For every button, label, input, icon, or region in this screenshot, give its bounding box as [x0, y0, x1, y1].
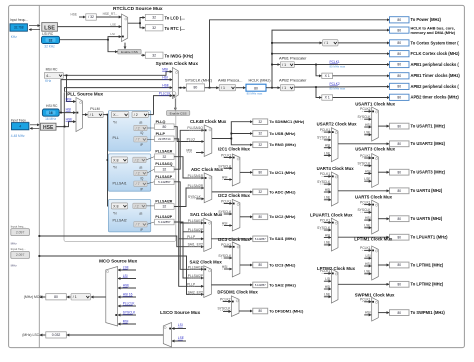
- svg-text:/ 2: / 2: [135, 204, 139, 208]
- svg-text:5.142857: 5.142857: [158, 220, 171, 224]
- svg-text:PLLSAI1P: PLLSAI1P: [188, 219, 204, 223]
- svg-text:5.142857: 5.142857: [255, 283, 266, 287]
- wire: [338, 143, 389, 145]
- junction: [60, 112, 62, 114]
- wire: [324, 288, 331, 290]
- svg-text:80: 80: [397, 85, 401, 89]
- wire: [364, 265, 371, 267]
- svg-text:MSI: MSI: [162, 68, 168, 72]
- svg-text:LSI: LSI: [110, 32, 115, 36]
- input label PCLK1: [221, 200, 232, 204]
- svg-text:HSI: HSI: [365, 311, 371, 315]
- svg-text:PCLK1: PCLK1: [360, 246, 371, 250]
- svg-text:32: 32: [49, 38, 53, 42]
- input label PCLK1: [320, 172, 331, 176]
- svg-text:80: 80: [258, 171, 262, 175]
- wire: [224, 179, 232, 181]
- input label SYSCLK: [188, 195, 202, 199]
- input label PCLK2: [220, 298, 231, 302]
- junction: [271, 87, 273, 89]
- disabled box SAI1_EXT frequency: [11, 229, 30, 236]
- input label LSI: [365, 254, 370, 258]
- svg-text:PLLSAI1R: PLLSAI1R: [155, 150, 172, 154]
- wire: [324, 131, 331, 133]
- wire: [196, 152, 204, 154]
- svg-text:LSE: LSE: [324, 293, 331, 297]
- svg-text:80: 80: [397, 41, 401, 45]
- wire: [378, 218, 389, 220]
- svg-text:PCLK2: PCLK2: [220, 298, 231, 302]
- svg-text:LSI: LSI: [123, 274, 128, 278]
- wire: [324, 155, 331, 157]
- input label PLLSAI1Q: [187, 126, 203, 130]
- dropdown APB1 prescaler: [280, 62, 294, 68]
- net label 4-48 MHz: [11, 134, 25, 138]
- wire: [324, 175, 331, 177]
- svg-text:PLLP: PLLP: [156, 132, 166, 136]
- input label SAI1_EXT: [188, 243, 203, 247]
- svg-text:LSE: LSE: [364, 177, 371, 181]
- svg-text:PLLM: PLLM: [90, 107, 99, 111]
- svg-text:To UART4 (MHz): To UART4 (MHz): [411, 188, 443, 193]
- value box multiplier APB1 timers: [322, 73, 333, 78]
- dropdown Cortex prescaler: [323, 40, 339, 46]
- svg-text:USART3 Clock Mux: USART3 Clock Mux: [355, 147, 395, 152]
- bidirectional arrows LSE: [29, 26, 40, 30]
- input label SYSCLK: [357, 115, 371, 119]
- svg-text:HSE: HSE: [66, 118, 74, 122]
- net label MSI: [66, 97, 72, 101]
- wire: [210, 20, 390, 88]
- wire: [272, 30, 390, 88]
- wire: [324, 139, 331, 141]
- svg-text:SAI2_EXT: SAI2_EXT: [188, 290, 203, 294]
- svg-text:KHz: KHz: [11, 35, 17, 39]
- svg-text:/P: /P: [140, 143, 143, 147]
- net label LSE: [123, 265, 129, 269]
- svg-text:80: 80: [397, 311, 401, 315]
- net label 32 KHz: [44, 45, 55, 49]
- svg-text:SYSCLK: SYSCLK: [123, 310, 136, 314]
- junction: [230, 133, 232, 135]
- net label MSI: [162, 68, 168, 72]
- wire: [364, 204, 371, 206]
- svg-text:/ 2: / 2: [134, 113, 138, 117]
- svg-text:To SAI2 (MHz): To SAI2 (MHz): [269, 282, 296, 287]
- mux SAI2: [204, 266, 212, 298]
- svg-text:Input freq...: Input freq...: [11, 247, 26, 251]
- svg-text:To I2C2 (MHz): To I2C2 (MHz): [269, 214, 296, 219]
- value box PLLSAI2R value: [155, 204, 175, 210]
- wire: [324, 191, 331, 193]
- svg-text:PLLQ: PLLQ: [156, 120, 166, 124]
- PLL group frame: [64, 92, 176, 242]
- svg-text:MSI: MSI: [123, 319, 129, 323]
- wire: [178, 87, 186, 89]
- value box To LCD value: [145, 14, 163, 20]
- svg-text:PCLK1: PCLK1: [221, 200, 232, 204]
- svg-text:/ 1: / 1: [324, 41, 328, 45]
- svg-text:HSI: HSI: [365, 262, 371, 266]
- wire: [338, 190, 389, 192]
- svg-text:To Power (MHz): To Power (MHz): [411, 17, 442, 22]
- wire: [124, 43, 126, 49]
- svg-text:MSI: MSI: [66, 97, 72, 101]
- svg-text:APB2 peripheral clocks (: APB2 peripheral clocks (: [411, 84, 460, 89]
- value box SYSCLK value: [186, 84, 204, 91]
- svg-text:HSI: HSI: [222, 222, 228, 226]
- bidirectional arrows HSE: [30, 125, 39, 129]
- svg-text:32: 32: [162, 205, 166, 209]
- wire: [147, 127, 154, 129]
- svg-text:SYSCLK: SYSCLK: [188, 195, 202, 199]
- mux USART2 Clock Mux: [331, 128, 338, 162]
- svg-text:To LCD (...: To LCD (...: [165, 16, 185, 21]
- source box HSI RC 16: [42, 109, 59, 116]
- wire: [146, 205, 154, 207]
- input label LSE: [324, 196, 331, 200]
- value box HSE input frequency: [12, 123, 29, 130]
- svg-text:/ 7: / 7: [136, 182, 140, 186]
- svg-text:80: 80: [397, 52, 401, 56]
- mux MCO source: [106, 267, 118, 327]
- svg-text:80: 80: [397, 74, 401, 78]
- svg-text:PLLSAI1R: PLLSAI1R: [188, 174, 204, 178]
- svg-text:APB2 timer clocks (MHz): APB2 timer clocks (MHz): [411, 95, 460, 100]
- wire: [148, 114, 153, 116]
- svg-text:To USART2 (MHz): To USART2 (MHz): [411, 141, 446, 146]
- wire: [56, 122, 75, 127]
- svg-text:PLLCLK: PLLCLK: [159, 92, 172, 96]
- output box To UART5: [390, 216, 410, 222]
- input label SYSCLK: [218, 164, 232, 168]
- wire: [39, 236, 203, 247]
- svg-text:LSI RC: LSI RC: [42, 32, 53, 36]
- wire: [272, 42, 322, 44]
- dropdown PLLSAI2 *N multiplier: [111, 203, 127, 209]
- mux LPTIM2 Clock Mux: [331, 269, 338, 303]
- wire: [154, 96, 173, 115]
- svg-text:PCLK1: PCLK1: [360, 200, 371, 204]
- net label PLLCLK: [159, 92, 172, 96]
- wire: [333, 75, 390, 77]
- value box multiplier APB2 timers: [322, 95, 333, 100]
- mux LSCO source: [163, 323, 171, 348]
- output box To DFSDM1: [253, 308, 268, 314]
- wire: [205, 87, 219, 89]
- svg-text:2.097: 2.097: [16, 230, 25, 234]
- svg-text:HSI: HSI: [325, 188, 331, 192]
- output box To UART4: [390, 188, 410, 194]
- input label HSI: [365, 123, 371, 127]
- wire: [118, 278, 136, 280]
- svg-text:To I2C3 (MHz): To I2C3 (MHz): [269, 262, 296, 267]
- svg-text:/ 1: / 1: [282, 86, 286, 90]
- svg-text:PLLSAI1: PLLSAI1: [113, 181, 127, 185]
- svg-text:22.85714: 22.85714: [158, 137, 171, 141]
- svg-text:PCLK1: PCLK1: [360, 154, 371, 158]
- input label HSI: [222, 265, 228, 269]
- junction: [271, 42, 273, 44]
- wire: [224, 257, 232, 259]
- net label KHz: [45, 79, 51, 83]
- wire: [39, 256, 203, 294]
- PLL block PLLSAI2: [108, 200, 150, 232]
- svg-text:/ 1: / 1: [282, 63, 286, 67]
- svg-text:UART4 Clock Mux: UART4 Clock Mux: [317, 166, 355, 171]
- wire: [146, 157, 154, 160]
- svg-text:APB1 Prescaler: APB1 Prescaler: [279, 55, 307, 60]
- wire: [224, 213, 232, 215]
- output box APB2 peripherals: [390, 83, 410, 89]
- net label PCLK1: [330, 60, 340, 64]
- input label MSI: [186, 148, 192, 152]
- svg-text:PLLSAI1Q: PLLSAI1Q: [187, 126, 203, 130]
- net label 80 MHz max: [330, 65, 346, 69]
- junction: [38, 235, 40, 237]
- output box FCLK: [390, 51, 410, 57]
- net label 16 MHz: [45, 117, 56, 121]
- input label SYSCLK: [357, 162, 371, 166]
- svg-text:/ 1: / 1: [90, 113, 94, 117]
- junction: [271, 64, 273, 66]
- wire: [364, 219, 371, 221]
- output box To ADC: [253, 189, 268, 195]
- svg-text:HSI RC: HSI RC: [46, 104, 58, 108]
- wire: [324, 296, 331, 298]
- wire: [294, 86, 389, 89]
- svg-text:MHz: MHz: [11, 241, 18, 245]
- wire: [147, 182, 154, 184]
- svg-text:MSI: MSI: [186, 148, 192, 152]
- svg-text:80: 80: [397, 217, 401, 221]
- output box HCLK to AHB: [390, 27, 410, 33]
- wire: [231, 139, 252, 145]
- svg-text:LSE: LSE: [178, 336, 184, 340]
- wire: [179, 239, 204, 286]
- svg-text:To Cortex System timer (: To Cortex System timer (: [411, 40, 460, 45]
- value box LSCO value: [46, 332, 67, 338]
- value box To IWDG value: [145, 52, 163, 58]
- svg-text:HSI: HSI: [222, 176, 228, 180]
- svg-text:PLLSAI1Q: PLLSAI1Q: [155, 162, 172, 166]
- svg-text:0.032: 0.032: [52, 333, 61, 337]
- wire: [118, 305, 136, 307]
- svg-text:PCLK1: PCLK1: [221, 243, 232, 247]
- svg-text:To RTC (...: To RTC (...: [165, 26, 185, 31]
- junction: [38, 255, 40, 257]
- wire: [174, 222, 203, 232]
- svg-text:To LPUART1 (MHz): To LPUART1 (MHz): [411, 235, 449, 240]
- svg-text:DFSDM1 Clock Mux: DFSDM1 Clock Mux: [217, 290, 258, 295]
- svg-text:SAI2 Clock Mux: SAI2 Clock Mux: [190, 259, 223, 264]
- svg-text:SYSCLK: SYSCLK: [317, 136, 331, 140]
- output box To LPUART1: [390, 234, 410, 240]
- net label HSE: [123, 283, 130, 287]
- mux CLK48: [204, 125, 212, 156]
- svg-text:/P: /P: [140, 188, 143, 192]
- svg-text:RTC/LCD Source Mux: RTC/LCD Source Mux: [113, 6, 163, 12]
- wire: [58, 26, 122, 28]
- input label PLLQ: [187, 137, 196, 141]
- wire: [211, 238, 252, 240]
- svg-text:SYSCLK: SYSCLK: [357, 162, 371, 166]
- dropdown AHB prescaler: [219, 85, 236, 91]
- junction: [315, 64, 317, 66]
- wire: [364, 314, 371, 316]
- wire: [239, 310, 252, 312]
- wire: [118, 323, 136, 325]
- wire: [212, 122, 253, 139]
- value box HCLK: [246, 84, 266, 91]
- dropdown PLL *N multiplier: [111, 112, 129, 118]
- net label PLLCLK: [123, 301, 136, 305]
- svg-text:80: 80: [397, 170, 401, 174]
- svg-text:32: 32: [152, 16, 156, 20]
- input label HSI: [325, 285, 331, 289]
- input label LSE: [364, 224, 371, 228]
- svg-text:PCLK1: PCLK1: [360, 298, 371, 302]
- button Enable CSS (HSE): [167, 111, 190, 116]
- wire: [67, 296, 71, 298]
- svg-text:USART2 Clock Mux: USART2 Clock Mux: [317, 121, 357, 126]
- net label PCLK2: [330, 82, 340, 86]
- wire: [174, 99, 176, 111]
- input label PCLK1: [320, 218, 331, 222]
- wire: [364, 257, 371, 259]
- svg-text:80: 80: [194, 86, 198, 90]
- svg-text:80 MHz max: 80 MHz max: [330, 65, 346, 69]
- dropdown PLLSAI1 *N multiplier: [111, 157, 127, 163]
- input label PLLSAI1P: [188, 265, 204, 269]
- svg-text:To RNG (MHz): To RNG (MHz): [269, 142, 296, 147]
- input label PCLK1: [221, 243, 232, 247]
- value box PLLSAI2P value: [155, 219, 175, 225]
- wire: [172, 328, 186, 330]
- svg-text:CLK48 Clock Mux: CLK48 Clock Mux: [190, 119, 227, 124]
- svg-text:LSE: LSE: [110, 22, 116, 26]
- svg-text:To LPTIM2 (MHz): To LPTIM2 (MHz): [411, 282, 444, 287]
- wire: [223, 301, 231, 303]
- svg-text:PLLSAI2R: PLLSAI2R: [188, 184, 204, 188]
- svg-text:Input frequ...: Input frequ...: [11, 119, 29, 123]
- wire: [103, 114, 111, 116]
- svg-text:APB1 peripheral clocks (: APB1 peripheral clocks (: [411, 62, 460, 67]
- junction: [230, 138, 232, 140]
- output box Cortex timer: [390, 40, 410, 46]
- svg-text:4...: 4...: [46, 74, 51, 78]
- svg-text:PLLCLK: PLLCLK: [123, 301, 136, 305]
- wire: [67, 334, 164, 336]
- wire: [147, 222, 154, 224]
- junction: [271, 53, 273, 55]
- svg-text:80: 80: [397, 283, 401, 287]
- input label PLLSAI2P: [188, 228, 204, 232]
- junction: [64, 126, 66, 128]
- svg-text:HSI 16: HSI 16: [123, 292, 133, 296]
- input label PLLSAI1P: [188, 219, 204, 223]
- output box To USART2: [390, 141, 410, 147]
- wire: [183, 232, 204, 278]
- wire: [96, 16, 121, 18]
- svg-text:16: 16: [49, 111, 53, 115]
- output box To Power: [390, 17, 410, 23]
- svg-text:To UART5 (MHz): To UART5 (MHz): [411, 216, 443, 221]
- svg-text:/ 2: / 2: [136, 171, 140, 175]
- wire: [140, 23, 145, 28]
- svg-text:PCLK1: PCLK1: [221, 154, 232, 158]
- output box To SWPMI1: [390, 310, 410, 316]
- svg-text:To LPTIM1 (MHz): To LPTIM1 (MHz): [411, 262, 444, 267]
- net label 80 MHz max: [247, 92, 263, 96]
- svg-text:LSE: LSE: [324, 241, 331, 245]
- input label LSI: [325, 277, 330, 281]
- wire: [40, 296, 46, 298]
- wire: [172, 340, 186, 342]
- svg-text:FCLK Cortex clock (MHz): FCLK Cortex clock (MHz): [411, 51, 461, 56]
- wire: [65, 88, 173, 127]
- svg-text:HSI: HSI: [365, 123, 371, 127]
- output box To USART3: [390, 169, 410, 175]
- svg-text:LPTIM1 Clock Mux: LPTIM1 Clock Mux: [354, 237, 393, 242]
- dropdown PLLSAI2 /R divider: [133, 203, 146, 208]
- svg-text:LSE: LSE: [123, 265, 129, 269]
- value box MCO value: [46, 294, 67, 300]
- wire: [240, 171, 253, 173]
- wire: [141, 54, 145, 56]
- mux USART3 Clock Mux: [372, 154, 379, 188]
- input label PCLK1: [360, 246, 371, 250]
- wire: [333, 97, 390, 99]
- net label HSI 16: [123, 292, 133, 296]
- wire: [224, 246, 232, 248]
- value box PLLSAI1R value: [155, 154, 175, 160]
- svg-text:80: 80: [162, 125, 166, 129]
- wire: [224, 268, 232, 270]
- input label SYSCLK: [218, 254, 232, 258]
- mux DFSDM1: [231, 296, 239, 317]
- junction: [107, 39, 109, 41]
- svg-text:HSI: HSI: [325, 144, 331, 148]
- junction: [66, 74, 68, 76]
- input label PLLSAI2P: [188, 274, 204, 278]
- svg-text:Input frequ...: Input frequ...: [10, 18, 28, 22]
- PLL block PLL: [108, 111, 150, 152]
- svg-text:/P: /P: [140, 228, 143, 232]
- svg-text:HSI: HSI: [365, 169, 371, 173]
- svg-text:80: 80: [397, 189, 401, 193]
- svg-text:System Clock Mux: System Clock Mux: [156, 61, 199, 67]
- value box PLLSAI1Q value: [155, 166, 175, 172]
- wire: [324, 236, 331, 238]
- svg-text:HSI: HSI: [325, 285, 331, 289]
- net label 80 MHz max: [330, 86, 346, 90]
- wire: [91, 296, 106, 298]
- input label SYSCLK: [317, 226, 331, 230]
- input label LSE: [364, 177, 371, 181]
- mux UART5 Clock Mux: [372, 200, 379, 234]
- net label HSE: [162, 84, 170, 88]
- wire: [364, 134, 371, 136]
- svg-text:LPUART1 Clock Mux: LPUART1 Clock Mux: [310, 212, 353, 217]
- svg-text:HSE: HSE: [71, 13, 78, 17]
- wire: [236, 87, 246, 89]
- svg-text:PCLK2: PCLK2: [330, 82, 340, 86]
- output box To SAI2: [253, 282, 268, 288]
- svg-text:PLL Source Mux: PLL Source Mux: [67, 92, 103, 97]
- wire: [240, 264, 253, 266]
- svg-text:To USART1 (MHz): To USART1 (MHz): [411, 124, 446, 129]
